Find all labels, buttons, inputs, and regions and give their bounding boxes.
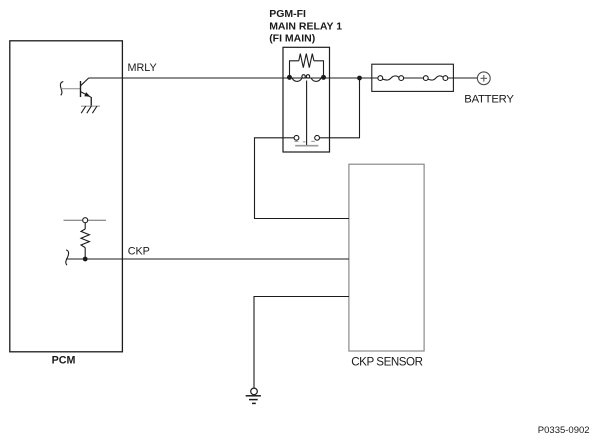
svg-text:MAIN RELAY 1: MAIN RELAY 1 (269, 21, 342, 33)
svg-text:BATTERY: BATTERY (464, 94, 514, 106)
svg-text:CKP: CKP (128, 246, 150, 258)
svg-text:P0335-0902: P0335-0902 (538, 425, 590, 436)
svg-text:(FI MAIN): (FI MAIN) (269, 33, 315, 45)
svg-text:PCM: PCM (52, 354, 76, 366)
svg-text:PGM-FI: PGM-FI (269, 8, 306, 20)
svg-text:CKP SENSOR: CKP SENSOR (351, 355, 422, 368)
svg-text:MRLY: MRLY (128, 62, 157, 74)
